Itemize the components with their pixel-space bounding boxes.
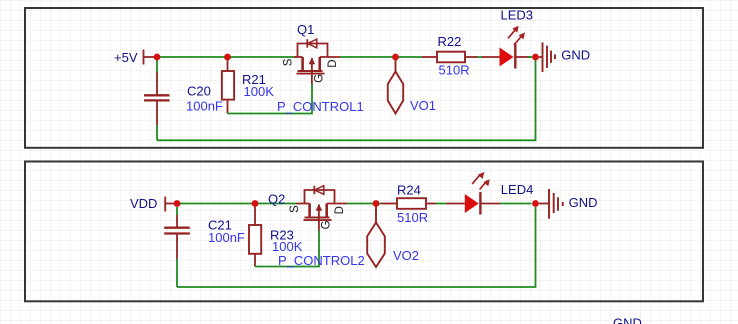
svg-text:510R: 510R (397, 210, 428, 225)
svg-text:D: D (334, 206, 346, 214)
power port VDD (165, 197, 177, 212)
svg-text:Q1: Q1 (297, 22, 314, 37)
svg-text:P_CONTROL2: P_CONTROL2 (278, 253, 365, 268)
wire bottom return circuit 2 (177, 207, 536, 287)
resistor R21 (222, 57, 234, 114)
label VO1 (410, 98, 436, 113)
frame sheet 1 (25, 8, 703, 148)
label R21 (242, 72, 266, 87)
label GND bottom cut off (613, 315, 642, 324)
wire R23 node to Q2 source (255, 203, 296, 205)
wire R22 to LED3 (478, 56, 483, 58)
svg-text:100nF: 100nF (186, 98, 223, 113)
svg-text:G: G (321, 220, 333, 229)
svg-text:100nF: 100nF (208, 230, 245, 245)
label R24 (397, 183, 421, 198)
label VO2 (393, 248, 419, 263)
power port +5V (144, 50, 158, 65)
svg-text:GND: GND (569, 195, 598, 210)
svg-text:LED3: LED3 (501, 8, 534, 23)
label LED3 (501, 8, 534, 23)
value 100K circuit 2 (272, 239, 303, 254)
svg-text:D: D (327, 59, 339, 67)
svg-text:510R: 510R (439, 63, 470, 78)
svg-text:R24: R24 (397, 183, 421, 198)
port VO1 (388, 60, 403, 114)
ground GND circuit 2 (539, 189, 563, 219)
label R23 (270, 228, 294, 243)
wire bottom return circuit 1 (157, 60, 536, 140)
LED3 diode (482, 26, 532, 69)
pin G Q2 (321, 220, 333, 229)
value 510R (439, 63, 470, 78)
wire gate P_CONTROL1 (228, 84, 313, 114)
wire +5V to R21 node (157, 56, 228, 58)
svg-text:100K: 100K (244, 84, 275, 99)
svg-text:VO1: VO1 (410, 98, 436, 113)
ground GND circuit 1 (539, 42, 555, 72)
wire VDD to R23 node (177, 203, 255, 205)
net label P_CONTROL1 (277, 99, 364, 114)
svg-text:100K: 100K (272, 239, 303, 254)
port VO2 (367, 206, 385, 267)
value 100K (244, 84, 275, 99)
wire gate P_CONTROL2 (255, 231, 319, 267)
junction node VO1 (392, 54, 399, 61)
resistor R22 (422, 52, 478, 63)
svg-text:+5V: +5V (114, 50, 138, 65)
label VDD (130, 196, 157, 211)
svg-text:VO2: VO2 (393, 248, 419, 263)
label C20 (187, 84, 211, 99)
label GND circuit 1 (561, 48, 590, 63)
label C21 (208, 218, 232, 233)
capacitor C20 (144, 60, 170, 140)
svg-text:VDD: VDD (130, 196, 157, 211)
value 100nF (186, 98, 223, 113)
junction node +5V/C20 (154, 54, 161, 61)
wire R24 to LED4 (436, 203, 446, 205)
junction node LED4 cathode (532, 200, 539, 207)
svg-text:R22: R22 (438, 34, 462, 49)
pin S Q2 (289, 205, 301, 213)
value 510R circuit 2 (397, 210, 428, 225)
label LED4 (501, 182, 534, 197)
wire Q1 drain to VO1 node (340, 56, 396, 58)
junction node R21 top (224, 54, 231, 61)
wire R21 node to Q1 source (228, 56, 295, 58)
label Q2 (268, 192, 285, 207)
svg-text:GND: GND (613, 315, 642, 324)
junction node LED3 cathode (532, 54, 539, 61)
wire VO1 node to R22 (396, 56, 423, 58)
pin S Q1 (283, 58, 295, 66)
junction node VO2 (373, 200, 380, 207)
wire Q2 drain to VO2 node (347, 203, 376, 205)
svg-text:P_CONTROL1: P_CONTROL1 (277, 99, 364, 114)
label +5V (114, 50, 138, 65)
label Q1 (297, 22, 314, 37)
net label P_CONTROL2 (278, 253, 365, 268)
LED4 diode (446, 172, 500, 215)
svg-text:G: G (314, 74, 326, 83)
svg-text:GND: GND (561, 48, 590, 63)
wire VO2 node to R24 (376, 203, 381, 205)
resistor R24 (381, 198, 436, 209)
junction node VDD/C21 (174, 200, 181, 207)
capacitor C21 (164, 207, 190, 287)
value 100nF circuit 2 (208, 230, 245, 245)
svg-text:S: S (283, 58, 295, 66)
resistor R23 (249, 204, 261, 267)
svg-text:LED4: LED4 (501, 182, 534, 197)
pin D Q1 (327, 59, 339, 67)
svg-text:C20: C20 (187, 84, 211, 99)
frame sheet 2 (25, 162, 703, 302)
pin D Q2 (334, 206, 346, 214)
wire LED4 to GND node (500, 203, 532, 205)
pin G Q1 (314, 74, 326, 83)
transistor Q1 (294, 39, 340, 84)
transistor Q2 (296, 186, 347, 231)
junction node R23 top (252, 200, 259, 207)
svg-text:Q2: Q2 (268, 192, 285, 207)
label GND circuit 2 (569, 195, 598, 210)
label R22 (438, 34, 462, 49)
svg-text:S: S (289, 205, 301, 213)
